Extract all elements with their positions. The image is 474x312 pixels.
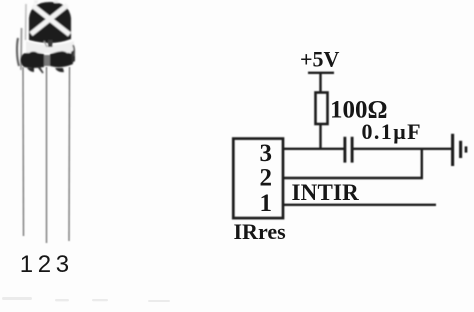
svg-text:0.1μF: 0.1μF <box>362 119 422 144</box>
svg-text:+5V: +5V <box>300 46 340 71</box>
svg-text:IRres: IRres <box>234 219 287 244</box>
svg-text:3: 3 <box>260 140 273 167</box>
svg-text:1: 1 <box>260 190 273 217</box>
svg-text:2: 2 <box>260 164 273 191</box>
svg-text:1 2 3: 1 2 3 <box>20 251 69 278</box>
svg-text:INTIR: INTIR <box>292 180 360 205</box>
